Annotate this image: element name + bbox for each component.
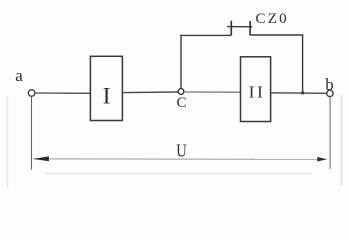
wire node C up	[180, 35, 182, 89]
junction at main wire	[301, 91, 304, 94]
svg-text:C: C	[176, 95, 186, 111]
scan artifact bottom streak	[45, 172, 312, 174]
wire top-left horizontal	[180, 34, 231, 36]
terminal b	[327, 90, 333, 96]
wire box I to node C	[122, 91, 178, 94]
scan artifact left edge	[7, 96, 9, 188]
node C	[178, 89, 184, 95]
svg-text:I: I	[249, 83, 255, 102]
svg-text:I: I	[257, 83, 263, 102]
extension line below a	[31, 96, 33, 169]
svg-text:CZ0: CZ0	[256, 11, 289, 27]
box I	[90, 56, 122, 120]
wire box II to terminal b	[271, 92, 327, 95]
wire down to main line	[302, 34, 304, 93]
extension line below b	[329, 97, 331, 169]
socket CZ0 right pin	[249, 21, 251, 35]
wire a to box I	[35, 92, 90, 94]
wire node C to box II	[184, 91, 241, 93]
scan artifact right edge	[341, 95, 343, 186]
terminal a	[28, 90, 35, 97]
box II	[241, 57, 271, 122]
svg-text:I: I	[103, 84, 111, 109]
svg-text:a: a	[15, 66, 23, 85]
svg-text:U: U	[176, 141, 187, 161]
socket CZ0 left pin	[230, 21, 232, 35]
wire top-right horizontal	[250, 34, 303, 36]
dimension line U	[34, 158, 327, 160]
socket CZ0 bar	[227, 26, 252, 28]
dimension arrow left	[33, 156, 49, 161]
dimension arrow right	[317, 157, 327, 162]
